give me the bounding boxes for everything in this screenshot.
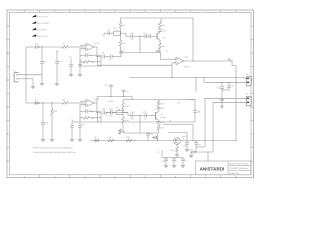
capacitor C5 feedback	[85, 53, 87, 57]
capacitor C19	[110, 84, 112, 85]
wire	[122, 109, 124, 113]
resistor R21	[176, 147, 179, 152]
wire	[159, 40, 162, 42]
wire R1 to opamp	[68, 46, 84, 48]
resistor R11 feedback	[84, 117, 90, 120]
net flag IN-LEFT	[33, 15, 36, 17]
wire +12V rail	[231, 61, 233, 66]
wire mid	[121, 32, 127, 34]
transistor Q1	[156, 33, 158, 40]
wire routing inner	[168, 133, 187, 141]
resistor R14	[122, 117, 125, 123]
svg-text:Potenciometer untuk volume tip: Potenciometer untuk volume tipe logaritm…	[33, 146, 74, 149]
capacitor C4	[79, 59, 81, 65]
capacitor C21b	[123, 89, 125, 92]
connector X2	[246, 73, 251, 86]
capacitor C35	[173, 158, 175, 160]
capacitor C30	[159, 28, 161, 30]
wire routing outer	[163, 125, 193, 141]
svg-text:C19: C19	[105, 84, 108, 87]
wire	[191, 151, 192, 153]
capacitor C36	[182, 158, 184, 160]
svg-text:LM358: LM358	[108, 100, 114, 103]
resistor R1	[62, 46, 68, 49]
capacitor C37	[156, 49, 160, 51]
capacitor C2	[56, 51, 58, 62]
wire stage2 fb	[98, 113, 195, 123]
svg-text:D: D	[7, 106, 9, 109]
capacitor C26	[193, 110, 197, 112]
ground C17	[78, 138, 82, 140]
svg-text:R11: R11	[91, 117, 94, 120]
wire opamp in+	[80, 44, 86, 46]
wire stage1 bottom rail	[121, 52, 161, 54]
ground R10	[50, 138, 54, 140]
svg-text:C29: C29	[198, 144, 201, 147]
capacitor C7	[110, 55, 112, 59]
svg-text:TL072: TL072	[184, 65, 189, 68]
svg-text:C18: C18	[90, 110, 93, 113]
resistor R15	[157, 101, 160, 106]
svg-text:IC1A: IC1A	[95, 42, 100, 45]
op-amp IC1B	[176, 57, 184, 64]
ground C15	[41, 138, 45, 140]
wire chain2	[97, 112, 101, 114]
wire	[196, 146, 205, 148]
wire	[72, 121, 80, 123]
wire chain	[97, 56, 101, 58]
wire IC1B in+	[160, 58, 176, 60]
wire X3 pin2	[213, 101, 246, 103]
wire	[120, 33, 122, 40]
ground C3	[69, 73, 73, 75]
ground C34	[164, 164, 168, 166]
wire	[222, 81, 229, 83]
svg-text:C: C	[251, 79, 253, 82]
connector X3	[246, 93, 251, 106]
wire out1	[171, 65, 173, 77]
net flag IN-RIGHT	[33, 22, 36, 24]
svg-text:INPUT-RIGHT: INPUT-RIGHT	[37, 22, 51, 25]
resistor R2 feedback	[84, 61, 90, 64]
resistor R20	[119, 129, 122, 134]
wire	[122, 109, 124, 113]
capacitor C31	[158, 106, 160, 107]
svg-text:Sheet: 1/1: Sheet: 1/1	[229, 172, 239, 175]
resistor R19	[126, 139, 132, 142]
wire stage2 bottom rail	[123, 132, 158, 134]
svg-text:INPUT-LEFT: INPUT-LEFT	[37, 16, 49, 19]
resistor R18	[108, 139, 114, 142]
resistor R3	[119, 22, 122, 28]
wire bias	[97, 96, 132, 98]
capacitor C18 feedback	[85, 109, 87, 113]
ground C1	[40, 82, 44, 84]
wire stage2 top rail	[123, 99, 195, 101]
connector X1	[14, 70, 19, 82]
svg-text:C28: C28	[183, 145, 186, 148]
wire IC2A feedback	[80, 105, 101, 122]
resistor R4	[119, 40, 122, 46]
wire stage2 loop	[188, 99, 195, 101]
svg-text:OUT-LEFT: OUT-LEFT	[37, 29, 47, 32]
capacitor C14	[228, 82, 230, 85]
wire rail to out	[192, 18, 194, 61]
resistor R10	[51, 103, 53, 109]
wire	[120, 28, 122, 33]
svg-text:C21: C21	[126, 91, 129, 94]
wire IC1B out	[182, 60, 232, 62]
potentiometer P2	[116, 111, 123, 115]
wire title feed	[207, 152, 209, 161]
svg-text:D3: D3	[190, 149, 192, 152]
diode D1	[36, 102, 40, 105]
ground C2	[55, 82, 59, 84]
svg-text:D: D	[251, 106, 253, 109]
svg-text:C13: C13	[217, 87, 220, 90]
diode D2	[95, 139, 99, 142]
op-amp IC1A	[86, 43, 94, 50]
capacitor C20	[102, 111, 104, 115]
capacitor C10	[130, 34, 132, 38]
title block	[196, 161, 251, 175]
transistor T1	[174, 138, 181, 145]
diode D4b	[154, 136, 157, 139]
svg-text:Baxter Tone Control: Baxter Tone Control	[229, 163, 248, 166]
diode D3	[192, 151, 196, 154]
capacitor C9	[107, 31, 109, 35]
wire X1 pin1	[19, 74, 42, 76]
capacitor C34	[165, 158, 167, 160]
wire IC1A feedback	[80, 49, 101, 66]
ground X1	[31, 85, 35, 87]
capacitor C8	[120, 55, 122, 57]
potentiometer P1	[114, 31, 121, 35]
ground C4	[78, 73, 82, 75]
transistor Q3	[155, 112, 157, 120]
wire T1 emitter	[176, 144, 178, 147]
wire cap row	[162, 157, 183, 159]
wire	[195, 78, 197, 93]
wire stage2 feed	[25, 47, 27, 103]
capacitor C23	[110, 111, 112, 115]
wire	[119, 129, 121, 135]
capacitor C13	[221, 82, 223, 86]
svg-text:R2: R2	[91, 61, 93, 64]
svg-text:+12V: +12V	[227, 58, 232, 61]
capacitor C16	[71, 122, 73, 126]
svg-text:IC2A: IC2A	[95, 98, 100, 101]
wire	[139, 36, 141, 52]
capacitor C15	[42, 103, 44, 123]
wire X2 pin1	[242, 77, 246, 80]
svg-text:R21: R21	[171, 149, 174, 152]
svg-text:U1: U1	[166, 50, 168, 53]
ground T1	[175, 154, 179, 156]
op-amp IC2A	[86, 99, 94, 106]
capacitor C27	[147, 132, 149, 134]
svg-text:R?: R?	[158, 151, 160, 154]
svg-text:ANISTARDI: ANISTARDI	[200, 166, 225, 171]
capacitor C25	[144, 114, 146, 118]
svg-text:Potenciometer untuk nada dari: Potenciometer untuk nada dari linier B50…	[33, 151, 77, 154]
capacitor C11	[144, 34, 146, 38]
ground C16	[70, 138, 74, 140]
ground C35	[172, 164, 176, 166]
svg-text:473: 473	[131, 118, 134, 121]
net flag OUT-RIGHT	[33, 35, 36, 37]
wire X1 pin2	[19, 78, 33, 80]
capacitor C28	[186, 141, 188, 143]
wire	[139, 116, 141, 134]
ground C36	[181, 164, 185, 166]
resistor R13	[122, 103, 125, 109]
capacitor C3	[70, 59, 72, 65]
capacitor C32	[158, 120, 161, 122]
capacitor C1	[41, 47, 43, 62]
wire X2 pin2	[222, 81, 246, 83]
wire stage2 input	[34, 102, 62, 104]
wire stage1 top rail	[121, 17, 194, 19]
svg-text:473: 473	[131, 38, 134, 41]
resistor R5	[159, 22, 162, 28]
wire mid2	[123, 112, 128, 114]
ground C28	[185, 148, 189, 150]
sheet border inner frame	[9, 12, 251, 174]
sheet border outer frame	[7, 10, 254, 178]
capacitor C24	[130, 114, 132, 118]
wire stage1 input	[26, 46, 36, 48]
capacitor C21	[110, 111, 112, 115]
capacitor C6	[102, 55, 104, 59]
svg-text:TDA2003 10W amp: TDA2003 10W amp	[229, 167, 248, 170]
svg-text:X2: X2	[246, 73, 248, 76]
svg-text:TIP31: TIP31	[182, 135, 187, 138]
wire bottom rail	[90, 140, 236, 142]
net flag OUT-LEFT	[33, 28, 36, 30]
resistor R16	[157, 125, 160, 130]
capacitor C29	[195, 141, 197, 143]
svg-text:C5: C5	[90, 54, 92, 57]
svg-text:C: C	[7, 79, 9, 82]
svg-text:IC1B: IC1B	[184, 56, 189, 59]
capacitor C12	[148, 34, 150, 38]
svg-text:C34: C34	[162, 160, 165, 163]
ground C13	[220, 98, 224, 100]
wire IC1B fb	[98, 57, 172, 66]
svg-text:BC546: BC546	[161, 116, 166, 119]
svg-text:C14: C14	[231, 85, 234, 88]
svg-text:104: 104	[144, 118, 147, 121]
wire X3 pin1	[205, 97, 246, 99]
wire	[122, 115, 124, 117]
resistor R6	[159, 43, 162, 49]
resistor R9	[62, 102, 68, 105]
border column ticks and digits	[7, 10, 254, 179]
capacitor C17	[79, 122, 81, 126]
svg-text:OUT-RIGHT: OUT-RIGHT	[37, 35, 49, 38]
svg-text:X3: X3	[246, 93, 248, 96]
wire	[158, 130, 160, 133]
diode D4	[36, 46, 40, 49]
